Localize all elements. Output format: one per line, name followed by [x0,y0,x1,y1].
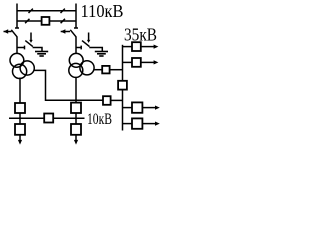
disconnector QS1 blade [11,30,17,37]
disconnector QS2 fixed contact tick [74,27,78,29]
wire: right 110kV entrance vertical [75,4,77,29]
35kV feeder 2 breaker [132,58,141,67]
35kV feeder 1 line with arrow [141,46,154,48]
35kV feeder 1 breaker [132,42,141,51]
10kV right feeder 2 arrow [142,123,155,125]
short-circuiter QK2 tap wire [76,47,81,49]
wire: T2 35kV outlet [94,69,102,71]
wire: Q4 to 35kV bus [110,69,123,71]
10kV bus section breaker [44,114,53,123]
wire: left 110kV entrance vertical [16,4,18,29]
transformer T1 MV winding [20,61,34,75]
disconnector QS2 blade [70,30,76,37]
35kV bus vertical [122,45,124,81]
disconnector slash on top jumper left [29,9,33,13]
10kV bus left part [9,117,44,119]
35kV feeder 2 wire [123,61,133,63]
QK2 wire to ground [89,48,102,52]
wire: right vertical below disconnector [75,37,77,55]
transformer T1 HV winding [10,53,24,67]
10kV feeder left arrow [19,135,21,141]
wire: bridge top jumper [17,10,76,12]
line W2 arrow to system [61,31,70,33]
35kV feeder 2 line with arrow [141,61,154,63]
transformer T1 LV winding [13,64,27,78]
breaker Q4 (T2 35kV) [102,66,109,74]
10kV right feeder 2 wire [123,123,133,125]
line W1 arrow to system [4,31,12,33]
wire: Q7 to 10kV bus [75,113,77,118]
transformer T2 MV winding [80,61,94,75]
wire: bridge bottom jumper right part [49,20,76,22]
10kV right feeder 2 breaker [132,118,142,128]
wire: left vertical below disconnector [16,37,18,55]
breaker Q7 (T2 10kV) [71,103,81,113]
short-circuiter QK1 tap wire [17,47,24,49]
10kV feeder left wire [19,118,21,124]
breaker Q1 (bridge) [42,17,50,25]
transformer T2 LV winding [69,63,83,77]
wire: T2 10kV outlet [75,77,77,103]
35kV bus section breaker QB [118,81,127,90]
transformer T2 HV winding [69,53,83,67]
QK1 actuation arrow [30,33,32,41]
disconnector slash on bottom jumper right [61,19,65,23]
wire: T1 35kV outlet [34,70,103,100]
wire: Q6 to 10kV bus [19,113,21,118]
QK1 wire to ground [33,48,42,52]
10kV right feeder 1 breaker [132,102,142,112]
10kV feeder left breaker [15,124,25,135]
ground (left short-circuiter) [35,51,48,53]
10kV bus right part [53,117,84,119]
10kV feeder right arrow [75,135,77,141]
10kV right feeder 1 wire [123,107,133,109]
disconnector QS1 fixed contact tick [15,27,19,29]
wire: Q5 to 35kV bus [111,99,123,101]
QK2 actuation arrow [88,33,90,41]
35kV feeder 1 wire [123,46,133,48]
ground (right short-circuiter) [95,51,108,53]
wire: T1 10kV outlet [19,78,21,104]
QK2 fixed contact tick [80,46,82,50]
svg-text:10кВ: 10кВ [87,111,112,128]
10kV feeder right breaker [71,124,81,135]
10kV right feeder 1 arrow [142,107,155,109]
35kV bus lower section / 10kV right riser [122,90,124,131]
disconnector slash on bottom jumper left [25,19,29,23]
wire: bridge bottom jumper left part [17,20,42,22]
QK1 blade [25,41,33,47]
svg-text:110кВ: 110кВ [81,1,124,21]
breaker Q6 (T1 10kV) [15,103,25,113]
breaker Q5 (T1 35kV) [103,96,111,105]
disconnector slash on top jumper right [61,9,65,13]
QK1 fixed contact tick [24,46,26,50]
QK2 blade [82,41,90,47]
10kV feeder right wire [75,118,77,124]
